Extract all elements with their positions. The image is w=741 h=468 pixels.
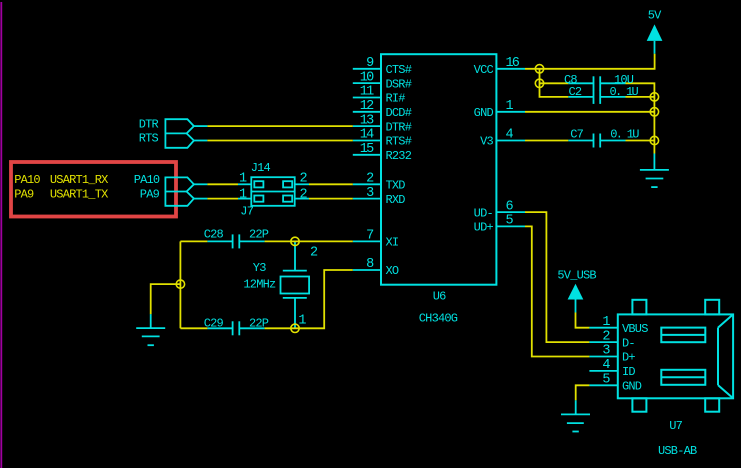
svg-text:0. 1U: 0. 1U [610, 85, 639, 99]
junction crystal gnd [176, 280, 184, 288]
highlight box (red) [11, 162, 176, 217]
junction C8 [535, 79, 543, 87]
svg-text:U7: U7 [669, 419, 682, 433]
svg-text:USART1_TX: USART1_TX [50, 188, 108, 202]
svg-text:C2: C2 [569, 85, 582, 99]
power symbol 5V_USB [568, 284, 584, 313]
pin 8 [353, 269, 381, 271]
pin 13 [353, 125, 381, 127]
svg-text:PA10: PA10 [134, 173, 160, 187]
wire UD+ to USB D+ [525, 226, 589, 356]
svg-text:D+: D+ [622, 351, 635, 365]
junction XI [291, 237, 299, 245]
connector U7 USB-AB [589, 300, 733, 412]
svg-text:0. 1U: 0. 1U [610, 128, 639, 142]
svg-text:C7: C7 [570, 128, 583, 142]
svg-text:TXD: TXD [386, 179, 406, 193]
wire J7 to RXD [309, 198, 353, 200]
svg-text:10: 10 [360, 70, 374, 85]
svg-text:PA9: PA9 [140, 188, 160, 202]
wire left vertical [179, 241, 181, 328]
svg-text:UD-: UD- [474, 206, 493, 220]
pin 7 [353, 240, 381, 242]
svg-text:V3: V3 [480, 135, 493, 149]
svg-text:13: 13 [360, 113, 374, 128]
sheet border line (left magenta) [0, 2, 2, 468]
crystal Y3 [281, 241, 310, 328]
wire DTR [207, 125, 352, 127]
junction C2 right [650, 93, 658, 101]
pin 14 [353, 140, 381, 142]
wire C29 left [180, 327, 207, 329]
wire to crystal ground [151, 284, 181, 314]
svg-text:22P: 22P [249, 228, 269, 242]
pin 16 [496, 68, 525, 70]
svg-text:Y3: Y3 [253, 261, 266, 275]
wire UD- to USB D- [525, 212, 589, 342]
capacitor C8 [568, 76, 625, 90]
svg-text:15: 15 [360, 142, 374, 157]
wire junction to XI pin [295, 240, 353, 242]
svg-text:RTS#: RTS# [386, 135, 412, 149]
pin 5 [496, 225, 525, 227]
svg-text:RI#: RI# [386, 92, 406, 106]
capacitor C7 [568, 134, 625, 148]
svg-text:C28: C28 [204, 228, 224, 242]
svg-text:5V: 5V [648, 8, 662, 22]
wire VCC branch down [540, 69, 569, 97]
svg-text:RTS: RTS [139, 132, 159, 146]
pin 9 [353, 68, 381, 70]
pin 12 [353, 111, 381, 113]
svg-text:14: 14 [360, 128, 374, 143]
capacitor C2 [568, 90, 625, 104]
ground (USB) [561, 400, 590, 431]
wire to C8 [540, 82, 569, 84]
IC U6 CH340G body [381, 54, 496, 285]
ground (right of C7) [640, 154, 669, 188]
junction VCC [535, 65, 543, 73]
svg-text:22P: 22P [249, 316, 269, 330]
svg-text:UD+: UD+ [474, 221, 494, 235]
wire GND pin [525, 111, 654, 113]
svg-text:DTR#: DTR# [386, 120, 412, 134]
svg-text:PA9: PA9 [14, 188, 34, 202]
pin 10 [353, 82, 381, 84]
wire C8 right [626, 83, 655, 153]
wire J14 to TXD [309, 183, 353, 185]
pin 6 [496, 211, 525, 213]
svg-text:ID: ID [622, 365, 635, 379]
svg-text:R232: R232 [386, 149, 412, 163]
sheet entry flags DTR/RTS [165, 119, 207, 148]
svg-text:USB-AB: USB-AB [658, 444, 697, 458]
svg-text:DCD#: DCD# [386, 106, 412, 120]
wire XI net left [180, 240, 207, 242]
junction markers [176, 65, 658, 333]
wire PA9 to J7 [207, 198, 238, 200]
wire C28 to junction [265, 240, 295, 242]
svg-text:VCC: VCC [474, 63, 494, 77]
svg-text:DTR: DTR [139, 117, 159, 131]
svg-text:11: 11 [360, 85, 374, 100]
svg-text:DSR#: DSR# [386, 77, 412, 91]
svg-text:RXD: RXD [386, 193, 406, 207]
power symbol 5V [647, 24, 663, 53]
pin 3 [353, 198, 381, 200]
svg-text:GND: GND [474, 106, 494, 120]
svg-text:U6: U6 [433, 289, 446, 303]
wire C7 right [626, 140, 655, 142]
svg-text:XO: XO [386, 264, 399, 278]
svg-text:J7: J7 [240, 204, 253, 218]
svg-text:USART1_RX: USART1_RX [50, 173, 108, 187]
svg-text:PA10: PA10 [14, 173, 40, 187]
svg-text:GND: GND [622, 380, 642, 394]
wires (yellow) [151, 54, 655, 400]
wire VCC to 5V [525, 54, 655, 69]
svg-text:C29: C29 [204, 316, 224, 330]
svg-text:CH340G: CH340G [419, 312, 458, 326]
svg-text:XI: XI [386, 236, 399, 250]
capacitor C29 [207, 321, 264, 335]
ground (crystal) [136, 314, 165, 345]
pin 4 [496, 140, 525, 142]
svg-text:5V_USB: 5V_USB [557, 269, 596, 283]
pin 15 [353, 154, 381, 156]
svg-text:16: 16 [506, 56, 520, 71]
wire C29 to XO [265, 270, 353, 328]
junction C29 [291, 324, 299, 332]
svg-text:CTS#: CTS# [386, 63, 412, 77]
labels [14, 117, 307, 218]
pin 1 [496, 111, 525, 113]
junction GND right [650, 108, 658, 116]
junction C7 right [650, 136, 658, 144]
wire RTS [207, 140, 352, 142]
svg-text:J14: J14 [251, 161, 271, 175]
jumper J14/J7 [238, 177, 309, 206]
wire V3 to C7 [525, 140, 568, 142]
wire 5V_USB to VBUS [576, 313, 590, 328]
wire PA10 to J14 [207, 183, 238, 185]
sheet entry flags PA10/PA9 [165, 177, 207, 205]
wire C2 right [626, 96, 655, 98]
pin 11 [353, 97, 381, 99]
svg-text:12MHz: 12MHz [243, 278, 276, 292]
capacitor C28 [207, 234, 264, 248]
pin 2 [353, 183, 381, 185]
svg-text:VBUS: VBUS [622, 322, 648, 336]
wire USB GND [576, 385, 590, 400]
svg-text:D-: D- [622, 336, 635, 350]
svg-text:12: 12 [360, 99, 374, 114]
